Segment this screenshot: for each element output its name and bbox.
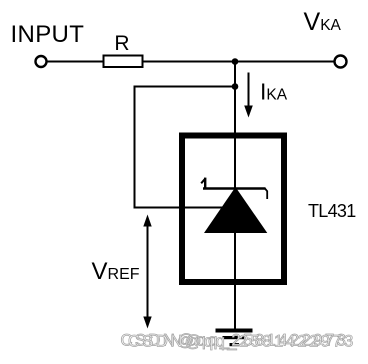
svg-text:INPUT: INPUT [11, 21, 85, 48]
svg-text:R: R [114, 32, 129, 55]
svg-text:TL431: TL431 [308, 201, 356, 221]
svg-text:CSDN@qq_2581422973: CSDN@qq_2581422973 [128, 333, 356, 351]
